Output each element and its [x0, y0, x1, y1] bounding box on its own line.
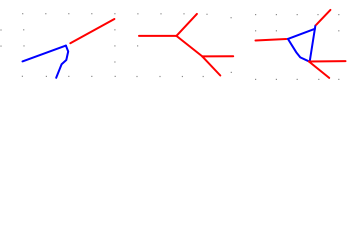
red edge northeast	[176, 14, 197, 36]
middle tree	[139, 14, 233, 76]
blue edge south (bent)	[56, 46, 68, 78]
right tree	[256, 10, 346, 78]
red edge east	[202, 55, 233, 57]
red edge southeast lower	[202, 56, 220, 75]
lattice dots right panel	[255, 14, 339, 80]
red edge northeast	[70, 19, 114, 43]
left tree	[23, 19, 115, 78]
blue cycle top edge	[288, 29, 315, 39]
blue cycle left-bottom edge (bent)	[288, 39, 309, 61]
blue edge west	[23, 46, 66, 62]
lattice dots middle panel	[136, 13, 232, 77]
red edge west	[139, 35, 176, 37]
red edge southeast upper	[176, 36, 202, 57]
red edge west	[256, 39, 287, 40]
blue vertical edge	[310, 26, 316, 61]
red edge northeast	[316, 10, 330, 25]
lattice dots left panel	[0, 13, 115, 77]
red edge east	[309, 60, 346, 62]
red edge southeast	[309, 62, 329, 78]
